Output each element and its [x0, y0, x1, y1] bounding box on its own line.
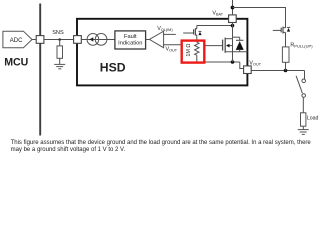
- resistor R_SNS: [57, 46, 63, 58]
- sense FET Q2: [183, 26, 201, 36]
- svg-text:This figure assumes that the d: This figure assumes that the device grou…: [11, 140, 312, 146]
- wire 1M top to sense FET: [196, 35, 198, 42]
- wire pull-up FET to resistor: [285, 32, 287, 47]
- svg-text:Fault: Fault: [124, 34, 137, 40]
- ADC block: [3, 31, 32, 48]
- SNS pin terminal (HSD side): [74, 36, 82, 44]
- pull-up FET Q3: [273, 27, 290, 34]
- wire sense FET to drain node: [197, 25, 233, 27]
- junction (source and 1M node): [231, 60, 235, 64]
- current monitor CS1: [87, 34, 107, 46]
- svg-text:RPULL(UP): RPULL(UP): [290, 42, 313, 48]
- Fault Indication box: [115, 31, 146, 49]
- V_BAT terminal: [229, 15, 237, 23]
- ground (load): [298, 130, 309, 135]
- wire comparator input VOUT: [163, 44, 182, 46]
- load: [301, 113, 319, 126]
- ground (SNS): [54, 64, 65, 68]
- highlight box (red): [182, 41, 205, 63]
- wire V_BAT rail: [233, 8, 286, 28]
- HSD block: [77, 19, 247, 86]
- wire switch to load: [302, 97, 304, 113]
- junction SNS resistor tap: [58, 38, 61, 41]
- junction V_BAT rail: [231, 6, 235, 10]
- wire 1M bottom rail: [197, 55, 240, 62]
- wire to VOUT pin: [240, 62, 244, 69]
- wire SNS net: [44, 39, 74, 41]
- power MOSFET Q1: [205, 38, 248, 53]
- svg-text:VOUT: VOUT: [249, 61, 261, 67]
- svg-text:HSD: HSD: [100, 60, 126, 74]
- svg-text:VBAT: VBAT: [212, 11, 223, 17]
- comparator U1: [149, 31, 163, 48]
- wire ADC to SNS pin: [32, 39, 36, 41]
- wire load to ground: [302, 126, 304, 129]
- wire drain: [232, 23, 234, 39]
- junction (sense tap): [231, 24, 235, 28]
- wire R_PULLUP to VOUT line: [285, 62, 287, 70]
- wire SNS to current monitor: [81, 39, 115, 41]
- wire source tie: [232, 52, 234, 62]
- svg-text:VOUT: VOUT: [166, 46, 178, 52]
- resistor 1M (zigzag): [195, 42, 199, 55]
- svg-text:may be a ground shift voltage: may be a ground shift voltage of 1 V to …: [11, 147, 126, 153]
- svg-text:SNS: SNS: [52, 30, 64, 36]
- junction (pull-up resistor): [284, 69, 288, 73]
- MCU block boundary: [39, 4, 41, 136]
- svg-text:1M Ω: 1M Ω: [186, 44, 192, 57]
- wire to switch: [304, 71, 306, 80]
- svg-text:ADC: ADC: [10, 38, 23, 44]
- svg-text:Indication: Indication: [118, 41, 142, 47]
- svg-text:MCU: MCU: [4, 56, 28, 68]
- svg-text:Load: Load: [307, 115, 319, 121]
- wire resistor to ground: [59, 58, 61, 64]
- wire fault box to comparator: [146, 39, 150, 41]
- VOUT terminal: [244, 66, 252, 74]
- resistor R_PULLUP: [282, 47, 289, 62]
- wire V_BAT stub (above square): [232, 0, 234, 15]
- wire comparator input VOLIM: [163, 33, 176, 35]
- SNS pin terminal (MCU side): [36, 36, 44, 44]
- switch S1: [296, 76, 305, 97]
- svg-text:VOL(IM): VOL(IM): [157, 26, 173, 32]
- body diode D1: [233, 37, 244, 52]
- wire tap to sense resistor: [59, 40, 61, 46]
- wire VOUT to load: [251, 70, 304, 72]
